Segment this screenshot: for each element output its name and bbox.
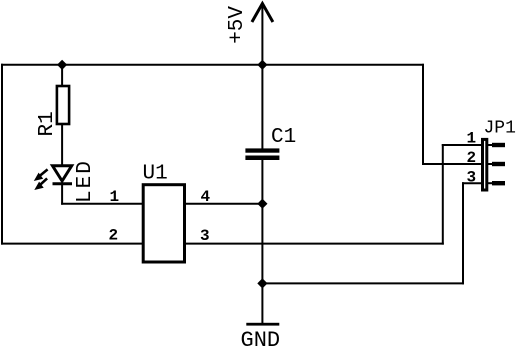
svg-text:R1: R1 [36, 111, 59, 136]
svg-text:C1: C1 [271, 126, 296, 149]
capacitor C1 bottom plate [245, 156, 279, 161]
wire JP1 pin1 horizontal [443, 144, 482, 146]
connector JP1 pin 2 stub [488, 162, 505, 166]
svg-text:2: 2 [467, 149, 477, 167]
wire R1 to LED [61, 124, 63, 165]
supply +5V arrow [252, 4, 273, 23]
svg-text:JP1: JP1 [484, 119, 516, 139]
node junction at U1 pin4 / C1 [257, 199, 267, 209]
ground GND bar [246, 323, 279, 326]
connector JP1 pin 1 stub [488, 143, 505, 147]
wire +5V stem [261, 4, 263, 65]
wire GND rail to JP1 pin3 [262, 282, 463, 284]
wire LED to corner [61, 184, 63, 204]
wire U1 pin3 to JP1 pin1 horizontal [185, 243, 443, 245]
svg-text:1: 1 [110, 188, 120, 206]
connector JP1 pin 3 stub [488, 181, 505, 185]
wire R1 top stem [61, 65, 63, 86]
wire JP1 pin2 horizontal [423, 163, 482, 165]
wire VCC top rail [2, 64, 423, 66]
svg-text:LED: LED [74, 159, 97, 203]
wire U1 pin2 to left rail [2, 243, 143, 245]
wire left vertical [1, 65, 3, 244]
wire JP1 pin1 vertical [442, 145, 444, 244]
node junction at C1 / VCC [257, 60, 267, 70]
IC U1 body [143, 185, 184, 262]
wire U1 pin4 to node [185, 203, 262, 205]
svg-text:1: 1 [467, 130, 477, 148]
svg-text:2: 2 [109, 226, 119, 244]
wire JP1 pin3 horizontal [463, 182, 482, 184]
svg-text:3: 3 [200, 227, 210, 245]
LED D1 light arrow lower [34, 178, 47, 190]
svg-text:3: 3 [467, 169, 477, 187]
capacitor C1 top plate [245, 148, 279, 152]
node junction at R1 / VCC [57, 60, 67, 70]
node junction at GND rail [257, 278, 267, 288]
svg-text:4: 4 [201, 188, 211, 206]
wire node to C1 top plate [261, 65, 263, 150]
svg-text:+5V: +5V [226, 6, 249, 44]
wire LED to U1 pin1 [62, 203, 143, 205]
LED D1 triangle [53, 166, 72, 181]
svg-text:U1: U1 [143, 163, 168, 186]
svg-text:GND: GND [241, 328, 281, 348]
LED D1 light arrow upper [34, 169, 48, 181]
LED D1 cathode bar [53, 182, 73, 185]
wire VCC to JP1 pin2 vertical [422, 65, 424, 164]
wire JP1 pin3 vertical [462, 183, 464, 283]
wire C1 bottom plate to GND node [261, 160, 263, 284]
resistor R1 body [57, 86, 69, 124]
wire GND stem [261, 283, 263, 323]
connector JP1 body [483, 139, 487, 190]
